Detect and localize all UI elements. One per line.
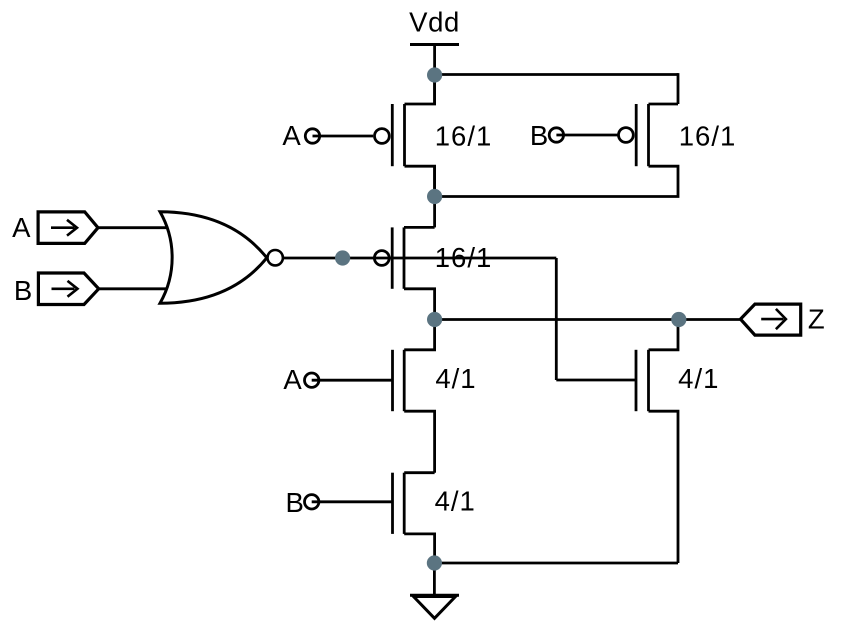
nmos M4 size label 4/1 — [435, 363, 476, 394]
wire Vdd to node N1 — [433, 45, 436, 105]
svg-text:B: B — [530, 120, 548, 151]
svg-text:4/1: 4/1 — [678, 363, 719, 394]
pmos M1 pin bubble — [305, 129, 319, 143]
nmos M4 body — [393, 320, 435, 473]
svg-text:16/1: 16/1 — [679, 121, 737, 152]
Vdd supply bar — [410, 43, 459, 46]
junction node N4 dot — [671, 312, 686, 327]
nmos M6 pin bubble — [305, 495, 319, 509]
wire NOR net to M5 gate — [556, 379, 636, 382]
svg-text:A: A — [12, 212, 31, 243]
svg-text:A: A — [282, 120, 301, 151]
wire output row node N3 to node N4 — [435, 318, 679, 321]
junction node N2 dot — [427, 189, 442, 204]
svg-text:4/1: 4/1 — [435, 363, 476, 394]
pmos M2 B-gated 16/1: pin label B — [530, 120, 548, 151]
wire top rail N1 to right column — [435, 73, 678, 76]
svg-text:4/1: 4/1 — [435, 486, 476, 517]
pmos M3 body — [392, 227, 434, 319]
wire pin B to NOR input — [99, 287, 172, 290]
junction node N1 dot — [427, 67, 442, 82]
junction node N3 dot — [427, 312, 442, 327]
input pin A label — [12, 212, 31, 243]
nmos M6 B-gated 4/1: pin label B — [286, 487, 304, 518]
svg-text:16/1: 16/1 — [435, 121, 493, 152]
nmos M6 body — [393, 473, 435, 563]
input pin A — [38, 212, 98, 244]
wire pin A to NOR input — [98, 226, 172, 229]
NOR gate U1 output bubble — [268, 250, 283, 265]
wire node N5 to ground symbol — [433, 563, 436, 595]
nmos M5 size label 4/1 — [678, 363, 719, 394]
pmos M1 A-gated 16/1: pin label A — [282, 120, 301, 151]
svg-text:Vdd: Vdd — [409, 7, 460, 38]
nmos M4 pin bubble — [305, 373, 319, 387]
wire node N2 down to M3 source — [433, 166, 436, 227]
pmos M2 gate bubble — [619, 128, 634, 143]
wire NOR output to M3 gate and across — [283, 257, 556, 260]
pmos M3 16/1 gate bubble — [374, 251, 389, 266]
wire B pin to M6 gate — [312, 500, 393, 503]
Vdd label — [409, 7, 460, 38]
wire A pin to M4 gate — [312, 379, 393, 382]
nmos M6 size label 4/1 — [435, 486, 476, 517]
input pin B — [38, 273, 98, 305]
pmos M1 body — [392, 75, 434, 197]
output pin Z label — [808, 304, 825, 335]
nmos M5 4/1 right body — [636, 320, 678, 564]
wire A pin to M1 gate bubble — [313, 135, 374, 138]
wire node N4 to pin Z — [679, 318, 741, 321]
output pin Z — [741, 304, 801, 335]
pmos M2 body — [435, 104, 678, 197]
wire ground row M5 to node N5 — [434, 562, 678, 565]
NOR gate U1 body — [160, 212, 267, 303]
wire right column down to M2 source — [677, 73, 680, 104]
junction node N5 dot — [427, 555, 442, 570]
junction node NOR-out dot — [335, 250, 350, 265]
input pin B label — [14, 275, 32, 306]
pmos M3 size label 16/1 — [435, 242, 493, 273]
svg-text:16/1: 16/1 — [435, 242, 493, 273]
wire B pin to M2 gate bubble — [556, 134, 617, 137]
svg-text:B: B — [14, 275, 32, 306]
pmos M2 pin bubble — [549, 128, 563, 142]
pmos M2 size label 16/1 — [679, 121, 737, 152]
ground symbol — [410, 595, 459, 618]
svg-text:B: B — [286, 487, 304, 518]
pmos M1 size label 16/1 — [435, 121, 493, 152]
wire NOR net down right of M3 — [555, 258, 558, 380]
svg-text:Z: Z — [808, 304, 825, 335]
nmos M4 A-gated 4/1: pin label A — [283, 364, 302, 395]
pmos M1 gate bubble — [375, 129, 390, 144]
svg-text:A: A — [283, 364, 302, 395]
